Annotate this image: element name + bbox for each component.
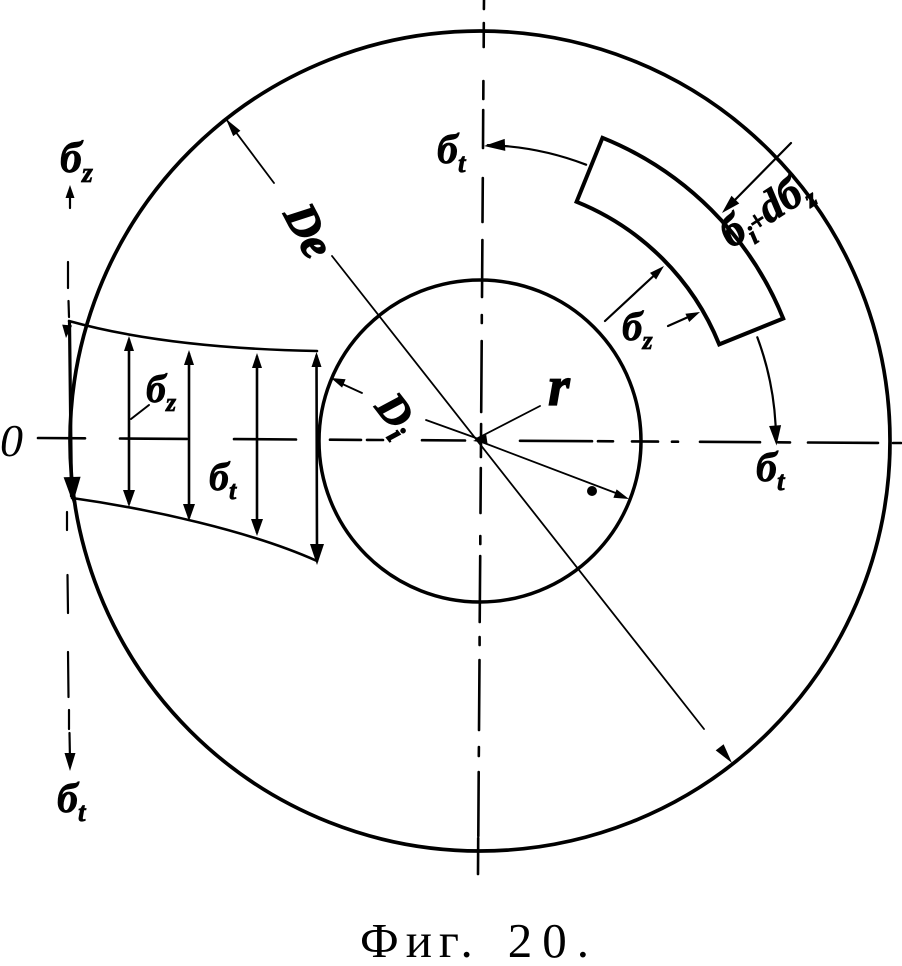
svg-text:r: r: [548, 356, 571, 418]
svg-text:0: 0: [0, 415, 23, 466]
sigma_z label leader in diagram: [131, 405, 149, 419]
left axis dashed line lower with sigma_t arrow: [67, 512, 70, 760]
svg-text:бz: бz: [60, 133, 93, 189]
stress arrow x=189: [183, 350, 195, 521]
svg-text:бt: бt: [57, 776, 87, 827]
De diameter line: [226, 119, 732, 763]
sigma_z arrow A: [605, 266, 664, 321]
element dr sector: [577, 138, 784, 345]
stress diagram top curve: [69, 321, 317, 351]
svg-text:бt: бt: [437, 127, 467, 178]
r leader line: [476, 406, 540, 439]
svg-text:бt: бt: [756, 445, 786, 496]
stress arrow x=317 (right edge): [310, 352, 324, 565]
svg-text:бz: бz: [622, 303, 653, 355]
Di arrow: [331, 378, 362, 393]
vertical centerline: [478, 0, 484, 874]
Di leader line: [426, 420, 476, 438]
left axis dashed line upper: [68, 262, 69, 317]
svg-text:De: De: [274, 194, 345, 266]
svg-text:Di: Di: [361, 383, 427, 447]
stress arrow x=129: [123, 336, 135, 507]
outer circle: [70, 31, 890, 851]
sigma_t arc to right axis: [757, 337, 781, 445]
inner circle: [319, 280, 641, 602]
sigma_t arc to top axis: [484, 139, 586, 165]
sigma_z arrow B: [668, 312, 700, 326]
stress arrow x=70 (left edge): [62, 322, 80, 503]
horizontal centerline: [38, 438, 901, 443]
svg-text:бi+dбz: бi+dбz: [710, 162, 823, 262]
stress arrow x=257: [251, 353, 263, 536]
stress diagram bottom curve: [72, 498, 317, 561]
r radius line with arrow: [473, 435, 629, 499]
svg-text:бz: бz: [146, 366, 177, 417]
svg-text:бt: бt: [209, 454, 237, 505]
left axis up arrow (sigma_z direction): [66, 185, 75, 208]
svg-text:Фиг.20.: Фиг.20.: [360, 913, 599, 966]
sigma_z+d_sigma_z arrow: [722, 143, 791, 213]
